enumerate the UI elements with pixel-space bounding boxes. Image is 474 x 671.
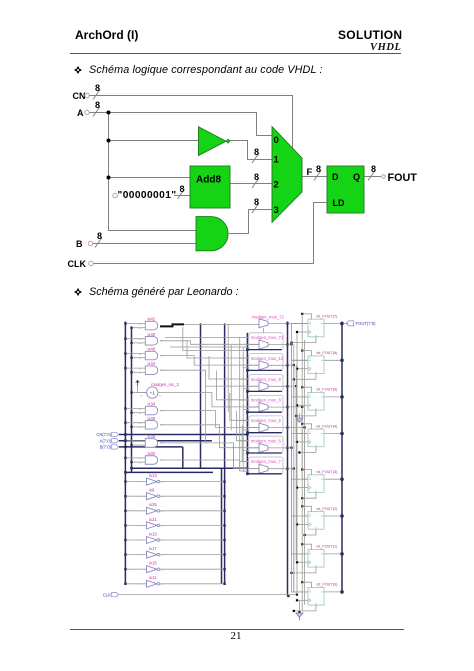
and gate ix46 xyxy=(145,351,157,360)
junction modgen_mux_9 select on rail xyxy=(246,390,249,393)
mux modgen_mux_10 box xyxy=(249,354,283,371)
svg-text:CLK: CLK xyxy=(103,592,111,597)
svg-text:D: D xyxy=(332,172,339,182)
wire ist_FOUT(5) feedback top xyxy=(302,387,311,392)
wire modgen_mux_7 select stub xyxy=(263,472,265,475)
svg-text:x: x xyxy=(309,357,311,360)
wire modgen_mux_6 input stub lower xyxy=(243,449,249,451)
wire modgen_mux_5 input xyxy=(249,427,259,429)
junction on A wire xyxy=(107,111,111,115)
wire mux row 2 to FF D input xyxy=(288,365,309,397)
wire ix38 output to mux row 6 xyxy=(160,425,259,448)
wire mesh long vertical h xyxy=(205,386,207,443)
wire ist_FOUT(1) clock input xyxy=(297,561,308,563)
mux xyxy=(272,127,302,223)
svg-text:ix42: ix42 xyxy=(148,317,156,322)
junction ist_FOUT(1) clock xyxy=(296,561,298,563)
junction ist_FOUT(4) feedback top xyxy=(301,423,303,425)
junction ix46 input a xyxy=(124,352,126,354)
wire mesh vertical g xyxy=(242,425,249,461)
flip-flop ist_FOUT(1) xyxy=(308,550,324,568)
junction ix32 input b xyxy=(130,461,132,463)
ground symbol mid (between FF4 and FF3) xyxy=(296,418,303,422)
junction CN bus to mux rail xyxy=(246,433,249,436)
wire ix11 output xyxy=(160,583,225,585)
bus modgen_mux_6 select segment xyxy=(247,452,281,454)
and gate ix44 xyxy=(145,366,157,375)
wire ix40 output to mux row 1 xyxy=(160,341,259,345)
wire ist_FOUT(1) Q output xyxy=(324,553,342,555)
wire ist_FOUT(4) D input xyxy=(292,433,309,435)
svg-text:ix11: ix11 xyxy=(149,575,157,580)
wire ix44 input a xyxy=(125,367,145,369)
svg-text:ix13: ix13 xyxy=(149,473,157,478)
wire modgen_mux_10 input stub lower xyxy=(243,367,249,369)
wire modgen_mux_9 input xyxy=(249,385,259,387)
wire ist_FOUT(6) feedback bottom xyxy=(294,374,316,380)
wire FF rail 3 xyxy=(295,365,297,560)
wire modgen_mux_71 select stub xyxy=(263,348,265,351)
wire ist_FOUT(4) Q output xyxy=(324,433,342,435)
wire modgen_mux_10 input stub upper xyxy=(240,357,249,359)
wire incrementer input xyxy=(132,392,147,394)
wire ist_FOUT(7) clock input xyxy=(297,331,308,333)
wire ix15 input xyxy=(125,568,146,570)
and gate ix38 xyxy=(145,421,157,430)
svg-text:ix44: ix44 xyxy=(148,361,156,366)
wire mesh horizontal n xyxy=(165,336,240,338)
wire mux row 4 to FF D input xyxy=(288,407,309,479)
svg-text:modgen_mux_71: modgen_mux_71 xyxy=(251,335,284,340)
junction ist_FOUT(1) feedback xyxy=(290,572,292,574)
wire ix46 input a xyxy=(125,353,145,355)
wire mesh vertical e xyxy=(230,393,249,420)
wire mesh vertical m xyxy=(239,337,241,471)
svg-text:ist_FOUT(3): ist_FOUT(3) xyxy=(317,470,339,474)
svg-text:CLK: CLK xyxy=(68,259,87,269)
register D flip-flop with LD xyxy=(327,166,364,213)
junction modgen_mux_71 select on rail xyxy=(246,348,249,351)
wire modgen_mux_71 input xyxy=(249,344,259,346)
wire modgen_mux_72 output to ist_FOUT(7) D xyxy=(288,322,309,324)
svg-text:x: x xyxy=(309,430,311,433)
bus V6 (FOUT output bus) xyxy=(341,322,343,593)
junction A bus on V1 xyxy=(124,439,127,442)
svg-text:8: 8 xyxy=(254,172,259,182)
bus width 8 on FOUT xyxy=(368,164,376,181)
mux modgen_mux_7 box xyxy=(249,457,283,474)
bus width 8 on Add8 output xyxy=(252,172,259,188)
wire mux row 3 to FF D input xyxy=(288,386,309,433)
junction ix42 input a xyxy=(124,322,126,324)
wire ist_FOUT(0) Q output xyxy=(324,591,342,593)
mux modgen_mux_71 symbol xyxy=(259,340,268,349)
ground symbol bottom xyxy=(296,613,303,617)
flip-flop ist_FOUT(5) xyxy=(308,393,324,411)
wire ix19 output xyxy=(160,539,225,541)
wire ix46 output to mux row 2 xyxy=(160,356,259,366)
and gate ix42 xyxy=(145,321,157,330)
junction ix15 input xyxy=(124,568,126,570)
buffer ix21 xyxy=(147,522,158,529)
flip-flop ist_FOUT(3) xyxy=(308,475,324,493)
page number xyxy=(231,630,242,642)
bus modgen_mux_10 select segment xyxy=(247,369,281,371)
bus B step xyxy=(182,447,184,468)
svg-text:ix17: ix17 xyxy=(149,546,157,551)
wire ix19 input xyxy=(125,539,146,541)
bus modgen_mux_71 select segment xyxy=(247,349,281,351)
svg-text:ist_FOUT(7): ist_FOUT(7) xyxy=(317,314,339,318)
svg-text:x: x xyxy=(309,320,311,323)
junction rail route 4 xyxy=(301,406,303,408)
junction ist_FOUT(2) feedback top xyxy=(301,505,303,507)
wire gate ix42 output to modgen_mux_72 xyxy=(184,323,259,325)
buffer xyxy=(199,127,230,156)
svg-text:modgen_inc_3: modgen_inc_3 xyxy=(151,382,179,387)
junction ix9 input xyxy=(124,495,126,497)
junction B bus on V1 xyxy=(124,446,127,449)
wire ix21 input xyxy=(125,524,146,526)
junction rail route 5 xyxy=(304,426,306,428)
wire ist_FOUT(2) feedback top xyxy=(302,506,311,511)
constant "00000001" xyxy=(113,190,177,201)
junction ist_FOUT(6) feedback xyxy=(293,378,295,380)
svg-text:B: B xyxy=(76,239,83,249)
wire ist_FOUT(6) Q output xyxy=(324,359,342,361)
bus B horizontal xyxy=(119,446,183,448)
wire ist_FOUT(1) D input xyxy=(292,553,309,555)
junction ist_FOUT(4) output on V6 xyxy=(340,432,344,436)
wire ist_FOUT(6) D input xyxy=(292,359,309,361)
svg-text:ist_FOUT(2): ist_FOUT(2) xyxy=(317,507,339,511)
wire mesh vertical l xyxy=(242,347,244,471)
junction ist_FOUT(4) feedback xyxy=(298,451,300,453)
wire ist_FOUT(3) clock input xyxy=(297,487,308,489)
wire ix44 output to mux row 3 xyxy=(160,370,259,386)
wire ix25 output xyxy=(160,510,225,512)
wire ix40 input a xyxy=(125,338,145,340)
wire ix46 input b xyxy=(132,357,146,359)
junction modgen_mux_8 select on rail xyxy=(246,411,249,414)
wire modgen_mux_8 input xyxy=(249,406,259,408)
junction modgen_mux_71 output xyxy=(286,343,288,345)
junction modgen_mux_7 output xyxy=(286,468,288,470)
junction ix11 output xyxy=(223,583,225,585)
wire ist_FOUT(2) Q output xyxy=(324,515,342,517)
wire ist_FOUT(7) D input xyxy=(292,323,309,325)
junction ix11 input xyxy=(124,583,126,585)
svg-text:CN(7:0): CN(7:0) xyxy=(96,432,111,437)
wire ist_FOUT(0) feedback bottom xyxy=(294,605,316,611)
wire ist_FOUT(1) feedback top xyxy=(302,544,311,549)
junction ist_FOUT(4) clock xyxy=(296,441,298,443)
wire FF rail 5 xyxy=(304,340,306,605)
svg-text:ist_FOUT(0): ist_FOUT(0) xyxy=(317,583,339,587)
svg-text:modgen_mux_10: modgen_mux_10 xyxy=(251,356,284,361)
svg-text:ist_FOUT(1): ist_FOUT(1) xyxy=(317,545,339,549)
wire modgen_mux_7 input xyxy=(249,468,259,470)
svg-text:ix15: ix15 xyxy=(149,561,157,566)
junction CLK to clock rail xyxy=(296,594,298,596)
wire ist_FOUT(0) feedback top xyxy=(302,582,311,587)
wire mesh long vertical i xyxy=(232,443,234,469)
wire ix36 input a xyxy=(125,440,145,442)
header right title xyxy=(338,28,402,42)
wire ix38 input a xyxy=(125,422,145,424)
svg-text:ix21: ix21 xyxy=(149,517,157,522)
wire mesh vertical d xyxy=(217,371,249,400)
junction modgen_mux_8 output xyxy=(286,406,288,408)
junction ist_FOUT(7) clock xyxy=(296,331,298,333)
mux modgen_mux_8 symbol xyxy=(259,403,268,412)
buffer ix15 xyxy=(147,566,158,573)
junction ist_FOUT(6) output on V6 xyxy=(340,359,344,363)
wire modgen_mux_72 output xyxy=(268,322,288,324)
svg-text:8: 8 xyxy=(95,100,100,110)
junction ix42 input b xyxy=(130,327,132,329)
wire ix25 input xyxy=(125,510,146,512)
svg-text:0: 0 xyxy=(274,135,279,146)
wire mesh vertical c xyxy=(209,356,249,379)
wire FF rail 4 xyxy=(301,314,303,611)
wire ix34 input b xyxy=(132,412,146,414)
wire constant to Add8 input xyxy=(174,195,190,197)
wire ist_FOUT(5) Q output xyxy=(324,396,342,398)
wire ix21 output xyxy=(160,524,225,526)
wire ist_FOUT(5) D input xyxy=(292,396,309,398)
svg-text:B(7:0): B(7:0) xyxy=(100,445,112,450)
and gate ix40 xyxy=(145,337,157,346)
junction modgen_mux_5 select on rail xyxy=(246,431,249,434)
wire modgen_mux_6 input stub upper xyxy=(240,440,249,442)
wire ix36 output to mux row 7 xyxy=(160,443,259,469)
wire ist_FOUT(7) feedback top xyxy=(302,314,311,319)
input CLK xyxy=(68,259,94,269)
wire gate ix32 output to mux column xyxy=(160,460,249,471)
junction ix15 output xyxy=(223,568,225,570)
svg-text:ist_FOUT(6): ist_FOUT(6) xyxy=(317,351,339,355)
bus V2 (left distribution bus 2) xyxy=(131,328,133,472)
wire modgen_mux_6 output xyxy=(268,447,288,449)
wire ist_FOUT(4) feedback top xyxy=(302,424,311,429)
svg-text:2: 2 xyxy=(274,180,279,191)
junction ist_FOUT(5) feedback xyxy=(295,415,297,417)
mux modgen_mux_9 symbol xyxy=(259,382,268,391)
mux modgen_mux_7 symbol xyxy=(259,464,268,473)
svg-text:ix25: ix25 xyxy=(149,502,157,507)
wire mesh vertical b xyxy=(187,341,249,358)
svg-text:ix19: ix19 xyxy=(149,531,157,536)
junction ix25 input xyxy=(124,510,126,512)
junction ix44 input a xyxy=(124,367,126,369)
flip-flop ist_FOUT(0) xyxy=(308,588,324,606)
junction modgen_mux_6 output xyxy=(286,447,288,449)
bus V4b (middle bus lower) xyxy=(221,468,223,584)
and gate ix36 xyxy=(145,439,157,448)
wire modgen_mux_10 output xyxy=(268,364,288,366)
wire ist_FOUT(4) feedback bottom xyxy=(299,447,316,453)
junction buffer branch xyxy=(107,139,111,143)
wire Add8 output to mux input 2 xyxy=(230,183,272,185)
svg-text:8: 8 xyxy=(371,164,376,174)
adder Add8 xyxy=(190,166,230,208)
bus V3 (middle bus) xyxy=(200,323,202,468)
junction ix25 output xyxy=(223,510,225,512)
wire ix32 input a xyxy=(125,457,145,459)
junction incrementer input xyxy=(130,391,132,393)
junction modgen_mux_6 select on rail xyxy=(246,452,249,455)
flip-flop ist_FOUT(4) xyxy=(308,429,324,447)
junction Add8 branch xyxy=(107,176,111,180)
wire buffer output to mux input 1 xyxy=(230,141,272,160)
wire ist_FOUT(6) feedback top xyxy=(302,351,311,356)
bus width 8 on A xyxy=(93,100,100,117)
and gate ix32 xyxy=(145,456,157,465)
junction ist_FOUT(1) output on V6 xyxy=(340,552,344,556)
wire ist_FOUT(2) D input xyxy=(292,515,309,517)
svg-text:xx: xx xyxy=(140,395,143,398)
and gate ix34 xyxy=(145,406,157,415)
wire ix44 input b xyxy=(132,371,146,373)
junction ist_FOUT(0) feedback xyxy=(293,610,295,612)
wire ix11 input xyxy=(125,583,146,585)
wire ist_FOUT(0) D input xyxy=(292,591,309,593)
ground stem bottom xyxy=(298,617,300,620)
junction ist_FOUT(2) clock xyxy=(296,523,298,525)
junction ix17 output xyxy=(223,553,225,555)
wire modgen_mux_72 select stub xyxy=(263,328,265,333)
junction ist_FOUT(1) feedback top xyxy=(301,543,303,545)
bus CN horizontal xyxy=(119,434,247,436)
bus modgen_mux_9 select segment xyxy=(247,390,281,392)
wire mux row 7 to FF D input xyxy=(288,469,309,592)
output connector FOUT(7:0) xyxy=(346,321,353,326)
svg-text:ist_FOUT(4): ist_FOUT(4) xyxy=(317,424,339,428)
mux modgen_mux_10 symbol xyxy=(259,361,268,370)
junction ist_FOUT(3) output on V6 xyxy=(340,477,344,481)
junction ist_FOUT(5) clock xyxy=(296,404,298,406)
wire clock rail xyxy=(296,332,298,595)
wire ix9 output xyxy=(160,495,225,497)
bus mux select rail xyxy=(246,333,248,474)
wire mux output F to register D xyxy=(302,176,327,178)
wire ix40 input b xyxy=(132,342,146,344)
junction ix34 input b xyxy=(130,412,132,414)
svg-text:CN: CN xyxy=(73,91,86,101)
header left title xyxy=(75,28,138,42)
wire ist_FOUT(2) clock input xyxy=(297,523,308,525)
junction buffer feed on V1 xyxy=(124,471,127,474)
input A xyxy=(77,108,89,118)
svg-text:FOUT(7:0): FOUT(7:0) xyxy=(356,321,377,326)
svg-text:8: 8 xyxy=(180,184,185,194)
input CN xyxy=(73,91,90,101)
bus V5 (mux output bus) xyxy=(287,322,289,597)
junction ix38 input b xyxy=(130,426,132,428)
mux modgen_mux_5 symbol xyxy=(259,423,268,432)
svg-text:x: x xyxy=(309,513,311,516)
wire ist_FOUT(7) Q output xyxy=(324,323,342,325)
junction ix19 input xyxy=(124,539,126,541)
wire modgen_mux_10 input xyxy=(249,364,259,366)
svg-text:x: x xyxy=(309,394,311,397)
wire modgen_mux_71 output xyxy=(268,344,288,346)
junction ist_FOUT(0) clock xyxy=(296,599,298,601)
wire ist_FOUT(3) Q output xyxy=(324,478,342,480)
flip-flop ist_FOUT(7) xyxy=(308,319,324,337)
wire mesh vertical f xyxy=(237,411,249,441)
bus buffer feed horizontal xyxy=(125,471,213,473)
wire ist_FOUT(3) feedback top xyxy=(302,470,311,475)
svg-text:3: 3 xyxy=(274,205,279,216)
carry-in arrow of modgen_inc_3 xyxy=(136,381,140,386)
wire mux row 1 to FF D input xyxy=(288,344,309,360)
wire register Q to FOUT xyxy=(364,176,381,178)
junction ix44 input b xyxy=(130,371,132,373)
junction ist_FOUT(3) feedback xyxy=(301,497,303,499)
wire register LD to CLK net xyxy=(314,203,328,264)
svg-text:x: x xyxy=(309,551,311,554)
buffer ix19 xyxy=(147,537,158,544)
svg-text:8: 8 xyxy=(254,197,259,207)
bus A horizontal xyxy=(119,440,212,442)
buffer ix25 xyxy=(147,507,158,514)
wire ist_FOUT(3) D input xyxy=(292,478,309,480)
junction ix32 input a xyxy=(124,457,126,459)
section heading 1 xyxy=(74,64,323,76)
wire mux row 6 to FF D input xyxy=(288,448,309,554)
wire modgen_mux_5 select stub xyxy=(263,431,265,434)
junction rail route 1 xyxy=(290,343,292,345)
junction V5 end xyxy=(287,595,289,597)
wire ix15 output xyxy=(160,568,225,570)
junction ix36 input a xyxy=(124,440,126,442)
svg-text:8: 8 xyxy=(316,164,321,174)
wire ix9 input xyxy=(125,495,146,497)
wire modgen_mux_71 input stub upper xyxy=(240,336,249,338)
junction ix34 input a xyxy=(124,407,126,409)
wire ist_FOUT(2) feedback bottom xyxy=(305,529,316,535)
bus modgen_mux_5 select segment xyxy=(247,432,281,434)
svg-text:x: x xyxy=(309,476,311,479)
svg-text:+1: +1 xyxy=(150,390,156,395)
svg-text:A(7:0): A(7:0) xyxy=(100,438,112,443)
flip-flop ist_FOUT(6) xyxy=(308,356,324,374)
footer rule xyxy=(70,629,404,630)
junction ix9 output xyxy=(223,495,225,497)
junction ist_FOUT(6) feedback top xyxy=(301,350,303,352)
buffer ix17 xyxy=(147,551,158,558)
bus width 8 on B xyxy=(95,231,102,248)
wire trunk from A to AND gate input xyxy=(109,113,197,231)
svg-text:modgen_mux_7: modgen_mux_7 xyxy=(251,459,282,464)
wire mesh vertical k xyxy=(230,345,232,431)
junction ix40 input a xyxy=(124,338,126,340)
wire ix36 input b xyxy=(132,444,146,446)
bus modgen_mux_8 select segment xyxy=(247,411,281,413)
svg-text:LD: LD xyxy=(333,198,345,208)
wire branch to Add8 input xyxy=(109,177,191,179)
wire ix13 input xyxy=(125,481,146,483)
wire ix13 output xyxy=(160,481,225,483)
wire CN to mux select xyxy=(89,96,293,148)
wire modgen_mux_10 select stub xyxy=(263,369,265,372)
svg-text:8: 8 xyxy=(97,231,102,241)
svg-text:modgen_mux_6: modgen_mux_6 xyxy=(251,438,282,443)
junction ist_FOUT(7) feedback xyxy=(290,342,292,344)
junction modgen_mux_5 output xyxy=(286,426,288,428)
